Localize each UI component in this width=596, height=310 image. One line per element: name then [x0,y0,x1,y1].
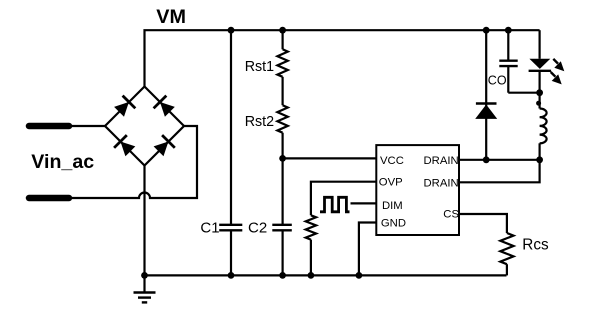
ground [134,275,156,302]
capacitor CO [499,30,517,92]
svg-text:CO: CO [488,74,507,88]
capacitor C2 [272,225,292,276]
wire Rcs to ground rail [506,264,508,275]
wire VCC pin [283,157,377,159]
input terminal lower [29,195,69,202]
wire bridge bottom vertex to ground rail [143,166,145,276]
svg-text:C2: C2 [248,219,267,236]
svg-text:Rcs: Rcs [522,237,549,254]
node C1 bottom junction dot [228,272,235,279]
svg-text:DIM: DIM [382,200,403,212]
svg-text:DRAIN: DRAIN [424,155,459,167]
inductor polarity dot [536,101,541,106]
wire VCC node to C2 [282,158,284,224]
wire GND pin [359,223,376,276]
node freewheel diode top junction dot [483,27,490,34]
svg-text:GND: GND [381,217,406,229]
node CO top junction dot [505,27,512,34]
node DRAIN diode junction dot [483,156,490,163]
bridge diode D4 (bottom to right) [145,126,185,166]
wire OVP resistor to ground rail [310,240,312,276]
svg-text:DRAIN: DRAIN [424,177,459,189]
node DRAIN inductor junction dot [536,156,543,163]
node ground junction dot [141,272,148,279]
svg-text:Vin_ac: Vin_ac [31,151,94,173]
diode freewheel [475,104,497,119]
node OVP resistor junction dot [308,272,315,279]
inductor L1 [540,93,547,160]
wire bottom rail [145,274,507,276]
bridge diode D2 (right to top) [145,87,185,127]
wire DRAIN2 pin [459,160,540,183]
wire OVP pin [311,182,376,216]
wire upper input to bridge left vertex [69,125,105,127]
wire Rst1 to Rst2 [282,77,284,105]
node GND junction dot [356,272,363,279]
op IC U1 box [376,145,459,235]
node LED cathode junction dot [536,89,543,96]
node C2 bottom junction dot [279,272,286,279]
svg-text:C1: C1 [200,219,219,236]
svg-text:Rst1: Rst1 [245,59,274,75]
resistor Rst2 [277,105,287,133]
svg-text:VCC: VCC [380,155,404,167]
capacitor C1 [219,30,242,275]
wire CS pin [459,214,507,233]
resistor Rst1 [277,30,287,77]
LED D5 [529,59,565,93]
wire freewheel branch [485,30,487,160]
wire Rst2 to VCC node [282,133,284,159]
svg-text:CS: CS [443,209,459,221]
resistor OVP [306,215,316,239]
input terminal upper [29,123,69,130]
resistor Rcs [500,233,513,264]
node VCC junction dot [279,155,286,162]
wire DIM pin [351,202,377,204]
wire DRAIN1 pin [459,159,540,161]
svg-text:VM: VM [156,6,186,28]
node Rst1 top junction dot [279,27,286,34]
wire VM rail to LED [538,30,540,59]
node C1 top junction dot [228,27,235,34]
wire top rail VM [145,30,540,86]
wire CO to LED cathode node [508,92,539,94]
svg-text:OVP: OVP [379,176,403,188]
wire lower input with hop over bridge drop [69,126,197,198]
bridge diode D3 (bottom to left) [105,126,145,166]
bridge diode D1 (left to top) [105,87,145,127]
PWM source symbol [320,197,350,212]
svg-text:Rst2: Rst2 [245,114,274,130]
